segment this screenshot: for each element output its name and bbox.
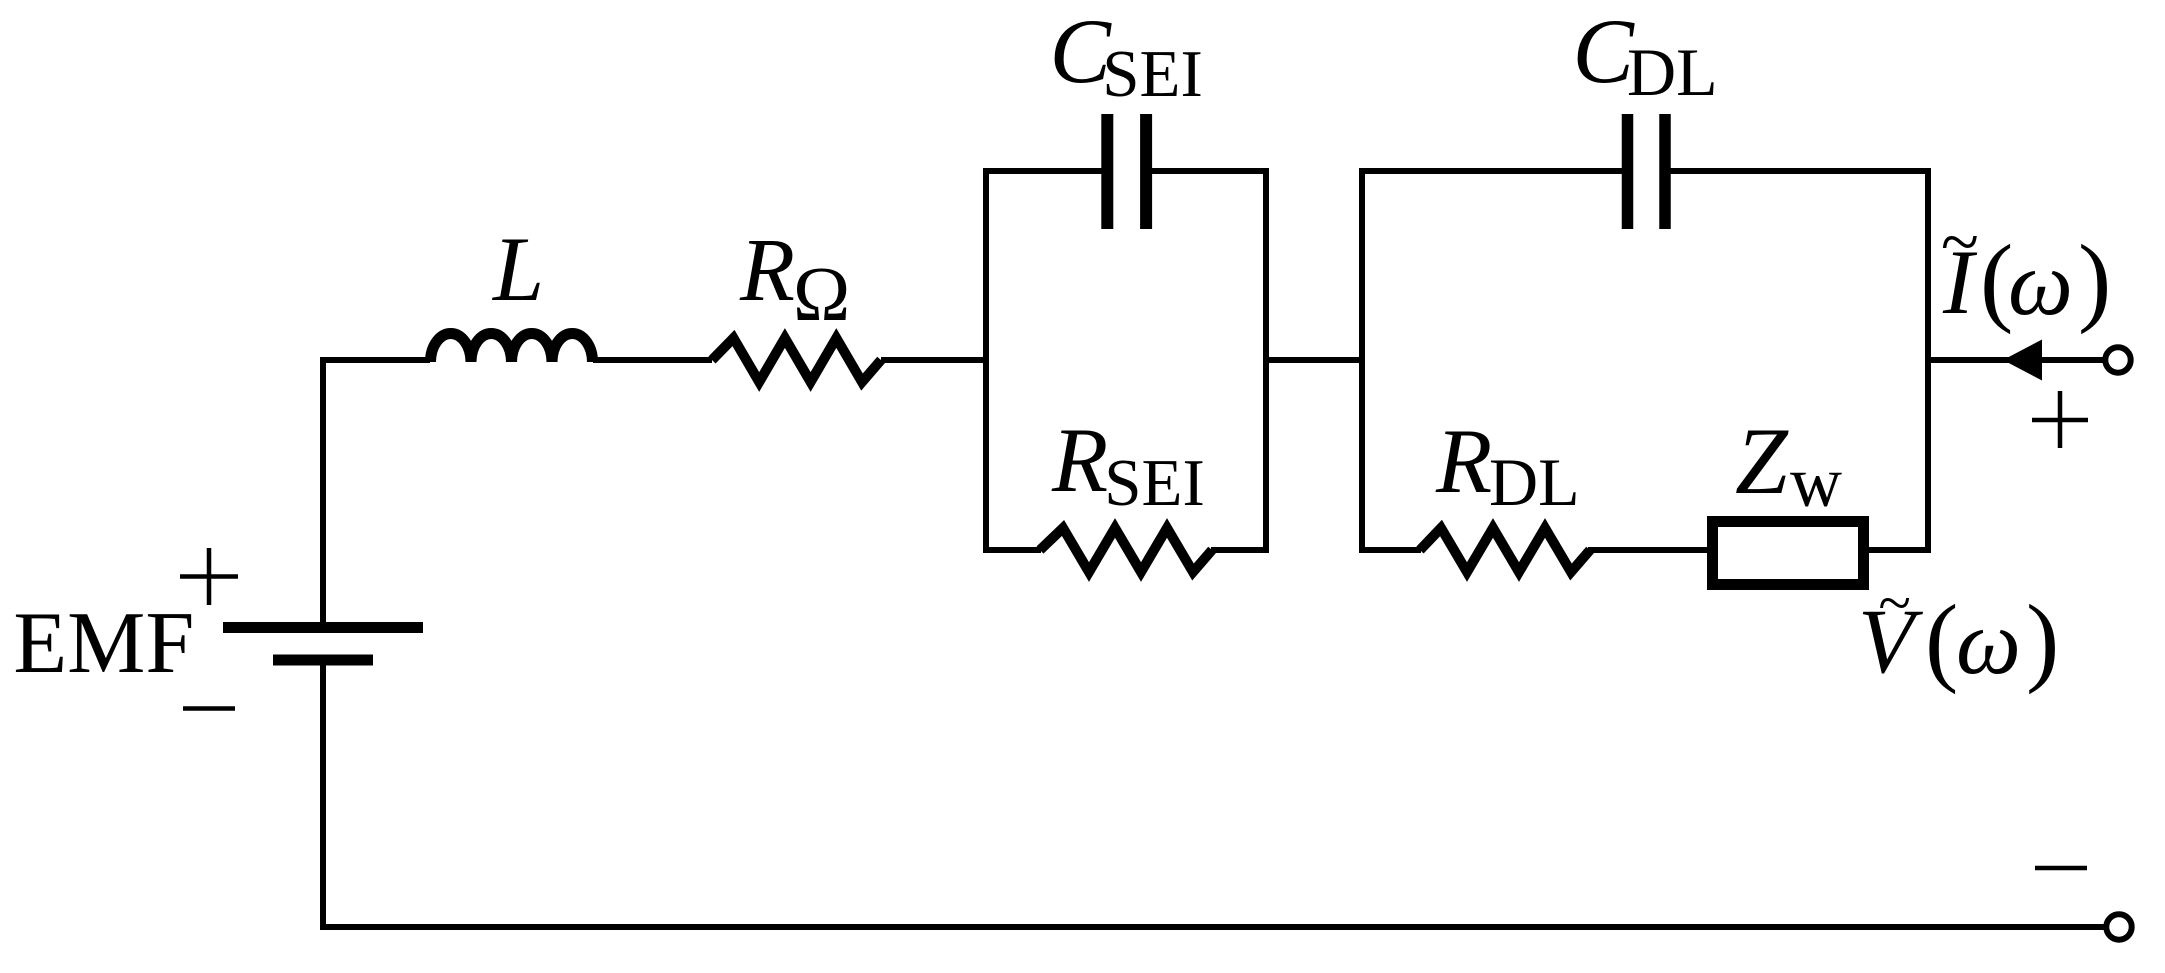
DL bottom wire middle xyxy=(1588,547,1713,553)
minus sign EMF xyxy=(183,706,235,711)
left vertical wire top xyxy=(320,357,326,622)
DL bottom wire right xyxy=(1863,547,1931,553)
wire between L and R xyxy=(593,357,712,363)
SEI block right vertical xyxy=(1263,168,1269,553)
Warburg impedance Z_W box xyxy=(1713,522,1864,585)
inductor L xyxy=(431,334,593,363)
DL bottom wire left xyxy=(1359,547,1421,553)
svg-text:ω: ω xyxy=(1956,591,2021,693)
svg-text:R: R xyxy=(1051,409,1108,511)
terminal circle top xyxy=(2105,347,2130,372)
capacitor C_DL xyxy=(1628,114,1666,229)
resistor R_SEI xyxy=(1040,528,1212,572)
SEI bottom wire right xyxy=(1211,547,1269,553)
resistor R_Omega xyxy=(712,338,881,382)
wire R to SEI block xyxy=(881,357,986,363)
svg-text:SEI: SEI xyxy=(1104,446,1205,520)
SEI top wire left xyxy=(983,168,1102,174)
svg-text:R: R xyxy=(739,221,795,320)
svg-text:~: ~ xyxy=(1878,570,1910,636)
SEI top wire right xyxy=(1152,168,1269,174)
resistor R_DL xyxy=(1420,528,1590,572)
svg-text:EMF: EMF xyxy=(13,595,194,692)
svg-text:Ω: Ω xyxy=(793,251,850,337)
minus sign right xyxy=(2035,866,2087,871)
capacitor C_SEI xyxy=(1107,114,1146,229)
current arrow xyxy=(2003,340,2042,381)
wire right output xyxy=(1928,357,2105,363)
SEI block left vertical xyxy=(983,168,989,553)
DL block left vertical xyxy=(1359,168,1365,553)
SEI bottom wire left xyxy=(983,547,1041,553)
DL block right vertical xyxy=(1925,168,1931,553)
plus sign right xyxy=(2032,391,2088,448)
svg-text:DL: DL xyxy=(1627,34,1718,110)
plus sign EMF xyxy=(180,548,238,605)
svg-text:R: R xyxy=(1435,410,1492,512)
svg-text:): ) xyxy=(2078,224,2111,335)
svg-text:L: L xyxy=(491,218,544,320)
terminal circle bottom xyxy=(2106,914,2131,939)
bottom wire xyxy=(320,924,2104,930)
svg-text:ω: ω xyxy=(2008,232,2073,334)
wire main left segment xyxy=(323,357,430,363)
left vertical wire bottom xyxy=(320,665,326,930)
battery EMF long plate xyxy=(223,622,423,633)
svg-text:Z: Z xyxy=(1735,408,1789,514)
svg-text:~: ~ xyxy=(1940,204,1978,281)
wire between blocks xyxy=(1266,357,1362,363)
DL top wire right xyxy=(1671,168,1932,174)
svg-text:(: ( xyxy=(1925,584,1958,695)
DL top wire left xyxy=(1359,168,1622,174)
svg-text:): ) xyxy=(2026,584,2059,695)
svg-text:w: w xyxy=(1790,442,1842,522)
svg-text:SEI: SEI xyxy=(1102,37,1203,111)
battery EMF short plate xyxy=(273,655,373,666)
svg-text:DL: DL xyxy=(1489,444,1580,520)
